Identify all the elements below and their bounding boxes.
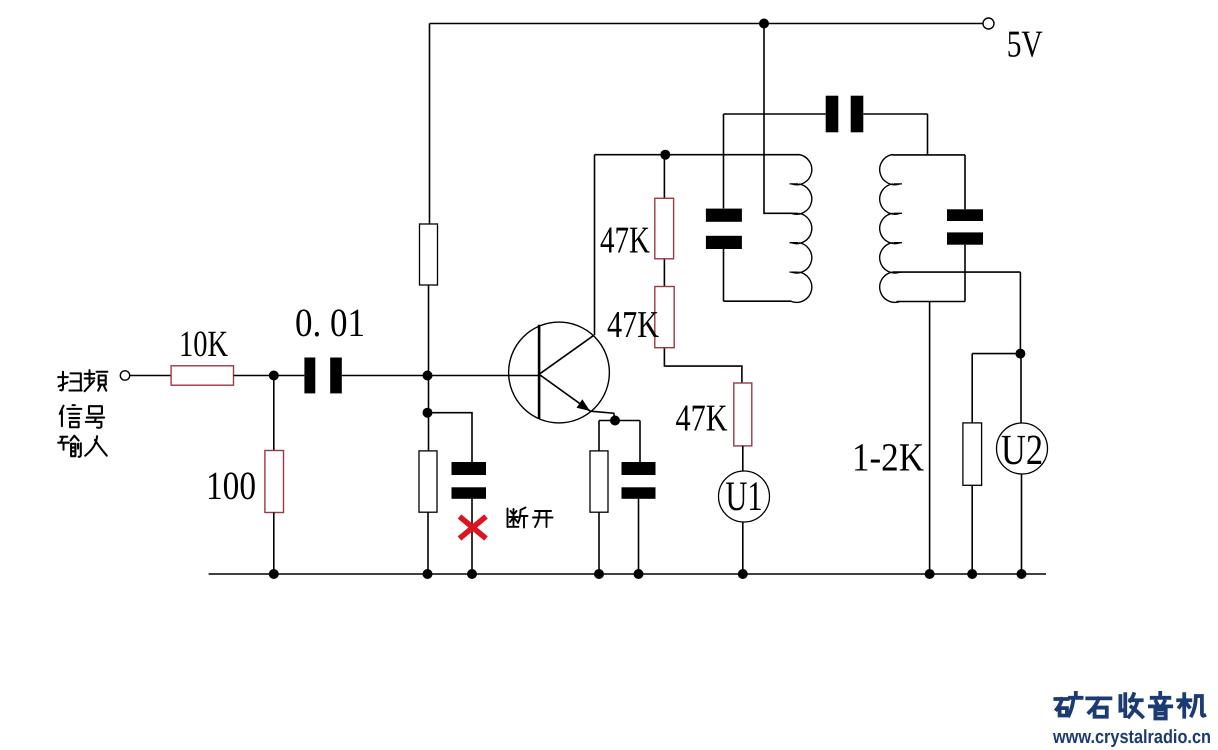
wire collector up and top wire to left coil (595, 155, 800, 336)
wire 100 to ground (273, 513, 275, 575)
transistor emitter arrow (577, 399, 591, 411)
inductor L2 junction ticks (894, 184, 903, 272)
resistor 47K no1 body (655, 198, 674, 258)
wire 47K3 to U1 (742, 446, 744, 471)
capacitor coupling plates (826, 96, 839, 133)
wire right coil tap to U2 node (893, 272, 1020, 354)
svg-text:U2: U2 (1001, 427, 1043, 474)
svg-text:47K: 47K (607, 304, 659, 346)
wire emitter node horizontals (599, 421, 640, 575)
ground node 100 (269, 569, 279, 579)
junction node bias lower (423, 408, 433, 418)
junction node U2 top (1015, 349, 1025, 359)
wire 47K chain vertical (664, 155, 742, 383)
wire right tank top and right side (893, 155, 966, 302)
ground node U2 (1017, 569, 1027, 579)
wire top supply rail (430, 23, 984, 25)
wire 10K to 0.01 cap (234, 375, 305, 377)
inductor L1 left coil (792, 155, 812, 303)
label sweep-signal-input line3 输入 (58, 436, 81, 457)
capacitor bypass (disconnected) plates (452, 462, 487, 475)
svg-text:0. 01: 0. 01 (295, 300, 365, 345)
wire left tank left side (724, 114, 826, 301)
voltmeter U2 circle (997, 423, 1048, 474)
transistor Q1 circle (509, 322, 610, 423)
svg-text:100: 100 (206, 463, 256, 508)
resistor emitter (black) (590, 451, 608, 512)
wire bias resistor to base node and down (428, 285, 430, 451)
svg-text:U1: U1 (726, 474, 763, 520)
ground node 1-2K (967, 569, 977, 579)
label sweep-signal-input line1 扫频 (58, 372, 82, 391)
ground node bypass cap (467, 569, 477, 579)
terminal input open circle (120, 371, 129, 380)
resistor R 10K body (171, 366, 233, 385)
svg-text:10K: 10K (179, 324, 228, 365)
svg-text:47K: 47K (676, 398, 728, 440)
transistor base bar (538, 325, 541, 419)
label break 断开 (508, 508, 528, 528)
wire node to U2 and U2 to ground (1020, 354, 1023, 574)
ground node coil return (925, 569, 935, 579)
capacitor left tank plates (706, 209, 742, 222)
svg-text:1-2K: 1-2K (852, 435, 924, 480)
watermark 矿石收音机 (1055, 693, 1081, 716)
wire input node down to 100 (273, 376, 275, 451)
inductor L2 right coil (880, 155, 900, 303)
junction node base (423, 371, 433, 381)
resistor 47K no2 body (655, 287, 674, 348)
svg-text:5V: 5V (1007, 24, 1043, 66)
wire node2 corner to bypass cap (428, 413, 472, 462)
wire U1 to ground (742, 522, 744, 574)
resistor 1-2K (black) (963, 423, 982, 485)
capacitor 0.01 plates (304, 358, 315, 394)
resistor bias lower (black) (419, 451, 437, 512)
ground node emitter resistor (594, 569, 604, 579)
wire node to 1-2K resistor (972, 354, 1020, 574)
svg-text:www.crystalradio.cn: www.crystalradio.cn (1052, 727, 1211, 748)
resistor 47K no3 body (734, 383, 752, 446)
transistor collector line (539, 335, 594, 374)
break mark red X (460, 517, 487, 539)
resistor bias (black) (420, 224, 438, 285)
wire bias lower resistor to ground (427, 512, 429, 574)
wire emitter exit to node (590, 411, 615, 420)
ground node emitter cap (634, 569, 644, 579)
label sweep-signal-input line2 信号 (60, 405, 82, 427)
junction node collector feed (660, 150, 670, 160)
wire bypass cap through X to ground (471, 499, 473, 574)
voltmeter U1 circle (719, 471, 770, 522)
junction node input divider (269, 371, 279, 381)
transistor emitter line (539, 374, 590, 411)
capacitor emitter plates (622, 462, 656, 475)
junction node emitter (610, 416, 620, 426)
ground bus wire (209, 573, 1046, 575)
junction node on 5V rail (759, 19, 769, 29)
wire 5V tap down to left coil (764, 24, 792, 214)
svg-text:47K: 47K (600, 220, 650, 262)
ground node bias resistor (423, 569, 433, 579)
terminal 5V open circle (983, 18, 994, 29)
wire coupling cap right to right tank (863, 114, 927, 155)
inductor L1 junction ticks (790, 184, 799, 272)
wire 0.01 cap to base (342, 375, 539, 377)
wire input terminal to 10K (130, 375, 171, 377)
resistor R 100 body (265, 451, 284, 513)
wire right coil bottom to ground (929, 302, 931, 575)
capacitor right tank plates (947, 209, 983, 221)
ground node U1 (738, 569, 748, 579)
wire rail left corner down to bias resistor (429, 24, 431, 225)
